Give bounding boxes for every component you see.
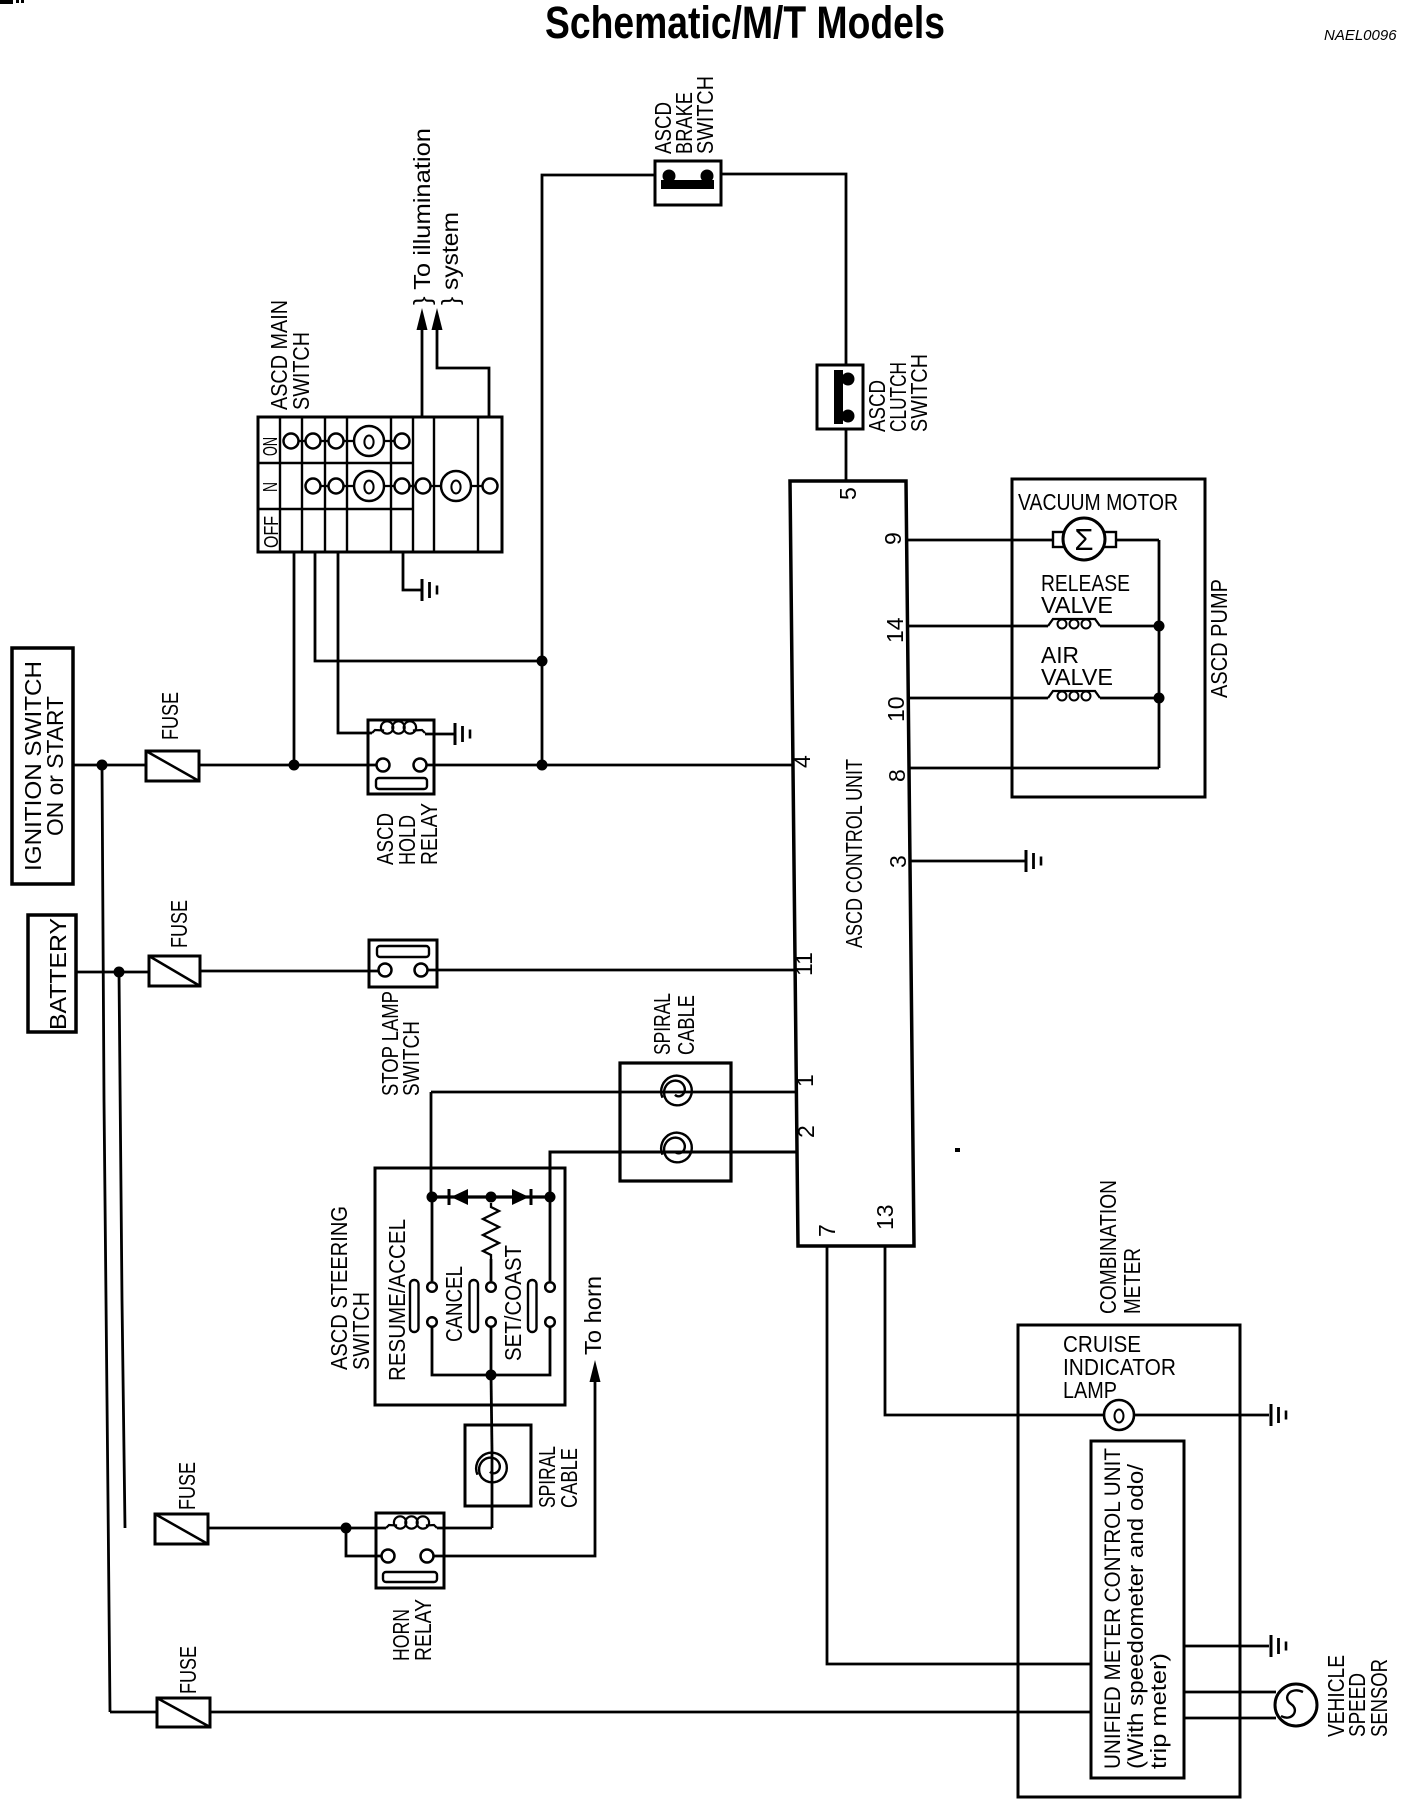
svg-text:3: 3 <box>885 855 911 868</box>
wire battery to fuse2 <box>76 971 149 974</box>
pin 3 label <box>885 855 911 868</box>
svg-text:FUSE: FUSE <box>166 900 192 948</box>
arrow to horn <box>590 1360 601 1382</box>
air valve coil <box>1048 691 1100 701</box>
main switch N row contacts <box>306 479 498 494</box>
release valve coil <box>1048 619 1100 629</box>
svg-text:9: 9 <box>880 532 906 545</box>
pin 11 label <box>791 952 817 976</box>
svg-text:2: 2 <box>793 1125 819 1138</box>
unified meter control unit box <box>1091 1441 1184 1778</box>
wire fuse2 to stop lamp switch <box>200 970 378 973</box>
wire hold relay coil to ground <box>425 733 455 736</box>
ascd steering switch box <box>375 1168 565 1405</box>
wire pump bus vertical <box>1158 540 1161 768</box>
wire fuse4 to meter unit <box>210 1711 1091 1714</box>
node brake feed on pin4 wire <box>537 760 548 771</box>
wire vertical battery feed B <box>119 972 125 1528</box>
ground main switch <box>422 579 437 601</box>
wire meter unit ground <box>1184 1645 1269 1648</box>
main switch N row lamp right <box>441 471 471 501</box>
wire release valve to bus <box>1100 625 1159 628</box>
vehicle speed sensor label <box>1323 1655 1392 1737</box>
svg-text:SET/COAST: SET/COAST <box>500 1245 526 1361</box>
unified meter control unit label <box>1100 1448 1171 1769</box>
combination meter label <box>1095 1180 1145 1314</box>
ink speck <box>955 1148 960 1152</box>
wire pin2 to spiral cable <box>550 1152 796 1197</box>
wire pin10 to air valve <box>908 697 1048 700</box>
cruise indicator lamp <box>1104 1400 1134 1430</box>
wire horn contact to horn <box>434 1382 595 1556</box>
diode D2 right-pointing <box>512 1189 531 1205</box>
pin 4 label <box>789 755 815 768</box>
svg-text:Schematic/M/T Models: Schematic/M/T Models <box>545 0 945 48</box>
svg-text:FUSE: FUSE <box>175 1646 201 1694</box>
svg-text:SWITCH: SWITCH <box>906 354 932 432</box>
horn relay slot <box>383 1572 437 1582</box>
spiral symbol pin2 <box>661 1133 692 1163</box>
main switch N row lamp left <box>354 471 384 501</box>
svg-text:Σ: Σ <box>1074 522 1093 557</box>
arrow to illumination 1 <box>417 308 428 330</box>
wire spiral cable feed down <box>430 1092 433 1197</box>
ascd steering switch label <box>326 1206 374 1370</box>
wire motor to pump bus <box>1116 539 1159 542</box>
svg-text:5: 5 <box>835 487 861 500</box>
node release valve bus <box>1154 621 1165 632</box>
pin 1 label <box>792 1074 818 1087</box>
svg-text:N: N <box>260 482 282 492</box>
node bus left <box>427 1192 438 1203</box>
svg-text:10: 10 <box>883 696 909 722</box>
svg-text:CABLE: CABLE <box>556 1448 582 1508</box>
main switch ON row wire <box>283 440 405 442</box>
steering bus wire <box>432 1195 550 1198</box>
svg-text:SWITCH: SWITCH <box>692 76 718 154</box>
wire pin3 to ground <box>910 860 1026 863</box>
wire brake feed up <box>542 175 655 765</box>
fuse F2 label <box>166 900 192 948</box>
ground control unit pin3 <box>1026 850 1041 872</box>
svg-text:RESUME/ACCEL: RESUME/ACCEL <box>384 1219 410 1381</box>
ascd hold relay slot <box>376 778 427 789</box>
set/coast label <box>500 1245 526 1361</box>
horn relay coil <box>386 1516 437 1528</box>
svg-text:BATTERY: BATTERY <box>45 918 71 1030</box>
wire pin14 to release valve <box>907 625 1048 628</box>
ground meter unit <box>1271 1635 1286 1657</box>
svg-text:CABLE: CABLE <box>673 995 699 1055</box>
cancel switch leg <box>486 1259 496 1375</box>
combination meter box <box>1018 1325 1240 1797</box>
spiral cable upper box <box>620 1063 731 1181</box>
ground hold relay <box>455 723 470 745</box>
ascd brake switch box <box>655 161 721 205</box>
cruise indicator lamp label <box>1063 1331 1176 1403</box>
cancel resistor <box>483 1203 499 1259</box>
svg-text:SWITCH: SWITCH <box>288 332 314 410</box>
svg-text:NAEL0096: NAEL0096 <box>1324 27 1397 44</box>
svg-text:RELAY: RELAY <box>416 803 442 865</box>
pin 5 label <box>835 487 861 500</box>
wire vertical ignition feed A <box>102 765 110 1712</box>
wire switch col1 down to pin4 wire <box>293 552 296 765</box>
svg-text:ASCD PUMP: ASCD PUMP <box>1206 579 1232 698</box>
wire coil to spiral cable <box>437 1527 492 1530</box>
resume/accel slot <box>410 1280 419 1332</box>
wire ignition to fuse <box>73 764 146 767</box>
ascd hold relay box <box>368 720 434 794</box>
svg-text:4: 4 <box>789 755 815 768</box>
stop lamp switch label <box>377 991 424 1096</box>
air valve label <box>1041 642 1113 690</box>
wire pin1 to spiral cable <box>431 1091 795 1094</box>
main switch N row wire <box>305 485 495 487</box>
cancel slot <box>470 1280 479 1332</box>
stop lamp switch slot <box>377 946 429 957</box>
ascd hold relay contacts <box>377 759 427 772</box>
fuse F4 <box>157 1698 210 1727</box>
ascd hold relay label <box>372 803 442 865</box>
main switch position labels <box>260 437 283 548</box>
vehicle speed sensor <box>1275 1684 1317 1726</box>
arrow to illumination 2 <box>432 308 443 330</box>
wire stop lamp switch to pin11 <box>428 969 795 972</box>
svg-text:} To illumination: } To illumination <box>409 128 435 305</box>
spiral symbol horn <box>476 1453 507 1483</box>
wire clutch to pin5 <box>845 429 848 481</box>
svg-text:COMBINATION: COMBINATION <box>1095 1180 1121 1314</box>
set/coast switch leg <box>491 1197 555 1375</box>
svg-text:VALVE: VALVE <box>1041 664 1113 690</box>
to horn label <box>580 1276 606 1355</box>
node horn relay branch <box>341 1523 352 1534</box>
svg-text:ON or START: ON or START <box>42 696 68 836</box>
ground cruise lamp <box>1271 1404 1286 1426</box>
title <box>545 0 945 48</box>
pin 9 label <box>880 532 906 545</box>
svg-text:8: 8 <box>884 769 910 782</box>
svg-text:FUSE: FUSE <box>174 1462 200 1510</box>
horn relay label <box>388 1599 436 1661</box>
svg-text:SPIRAL: SPIRAL <box>649 993 675 1055</box>
svg-text:7: 7 <box>814 1224 840 1237</box>
node steering common <box>486 1370 497 1381</box>
wire pin9 to vacuum motor <box>906 539 1053 542</box>
fuse F1 label <box>157 692 183 740</box>
svg-text:VACUUM MOTOR: VACUUM MOTOR <box>1018 489 1178 515</box>
wire brake to clutch <box>721 174 846 365</box>
release valve label <box>1041 570 1130 618</box>
stop lamp switch contacts <box>379 964 428 977</box>
svg-text:(With speedometer and odo/: (With speedometer and odo/ <box>1123 1463 1148 1769</box>
svg-text:LAMP: LAMP <box>1063 1377 1117 1403</box>
vacuum motor terminals <box>1053 532 1116 547</box>
main switch ON row contacts <box>284 434 410 449</box>
doc code NAEL0096 <box>1324 27 1397 44</box>
cancel label <box>441 1266 467 1342</box>
svg-text:FUSE: FUSE <box>157 692 183 740</box>
stop lamp switch box <box>369 940 437 987</box>
ascd pump label <box>1206 579 1232 698</box>
node main switch feed <box>289 760 300 771</box>
wire pin8 to pump bus <box>909 767 1159 770</box>
node ignition tap <box>97 760 108 771</box>
spiral cable lower box <box>465 1425 531 1506</box>
svg-text:RELAY: RELAY <box>410 1599 436 1661</box>
svg-text:1: 1 <box>792 1074 818 1087</box>
ignition switch label <box>20 661 68 871</box>
svg-text:METER: METER <box>1119 1248 1145 1314</box>
ascd main switch grid <box>258 417 502 552</box>
wire fuse3 to horn relay <box>208 1527 386 1530</box>
ascd clutch switch label <box>864 354 932 432</box>
fuse F4 label <box>175 1646 201 1694</box>
ascd clutch switch contacts <box>834 370 855 424</box>
ascd pump box <box>1012 479 1205 797</box>
wire pin7 to meter unit <box>827 1246 1091 1664</box>
node air valve bus <box>1154 693 1165 704</box>
pin 13 label <box>872 1204 898 1230</box>
horn relay box <box>376 1513 444 1588</box>
page edge mark <box>0 0 24 4</box>
wire pin13 to cruise lamp <box>885 1246 1269 1415</box>
svg-text:SWITCH: SWITCH <box>398 1021 424 1096</box>
diode D1 left-pointing <box>449 1189 468 1205</box>
spiral symbol pin1 <box>661 1076 692 1106</box>
vacuum motor label <box>1018 489 1178 515</box>
wire illumination arrow 2 <box>437 322 489 417</box>
svg-text:ASCD CONTROL UNIT: ASCD CONTROL UNIT <box>841 759 867 948</box>
svg-text:VALVE: VALVE <box>1041 592 1113 618</box>
svg-text:} system: } system <box>437 212 463 305</box>
set/coast slot <box>528 1280 537 1332</box>
horn relay contacts <box>382 1550 434 1563</box>
ascd control unit label <box>841 759 867 948</box>
ascd hold relay coil <box>372 721 425 733</box>
svg-text:CANCEL: CANCEL <box>441 1266 467 1342</box>
ascd brake switch contacts <box>661 170 714 190</box>
svg-text:14: 14 <box>882 617 908 643</box>
node col2 junction <box>537 656 548 667</box>
pin 10 label <box>883 696 909 722</box>
pin 2 label <box>793 1125 819 1138</box>
resume/accel label <box>384 1219 410 1381</box>
svg-text:UNIFIED METER CONTROL UNIT: UNIFIED METER CONTROL UNIT <box>1100 1448 1125 1769</box>
svg-text:13: 13 <box>872 1204 898 1230</box>
wire meter to speed sensor upper <box>1184 1691 1276 1694</box>
wire illumination arrow 1 <box>421 322 424 417</box>
ascd brake switch label <box>650 76 718 154</box>
wire switch col3 to hold relay coil <box>338 552 372 733</box>
svg-text:To horn: To horn <box>580 1276 606 1355</box>
pin 14 label <box>882 617 908 643</box>
wire relay to pin4 <box>426 764 793 767</box>
vacuum motor symbol <box>1063 518 1105 560</box>
battery label <box>45 918 71 1030</box>
wire air valve to bus <box>1100 697 1159 700</box>
fuse F3 <box>155 1514 208 1544</box>
node battery tap <box>114 967 125 978</box>
svg-text:SWITCH: SWITCH <box>348 1292 374 1370</box>
fuse F2 <box>149 956 200 986</box>
ignition switch box <box>12 648 73 884</box>
node bus mid <box>486 1192 497 1203</box>
main switch ON row lamp <box>354 426 384 456</box>
battery box <box>28 915 76 1032</box>
wire branch to horn contact <box>346 1528 381 1556</box>
ascd main switch label <box>266 300 314 410</box>
wire vertical A to fuse4 <box>110 1711 157 1714</box>
svg-text:trip meter): trip meter) <box>1146 1653 1171 1769</box>
spiral cable lower label <box>534 1446 582 1508</box>
ascd clutch switch box <box>817 365 863 429</box>
resume/accel switch leg <box>427 1197 491 1375</box>
svg-text:OFF: OFF <box>261 516 283 548</box>
wire steering common to spiral <box>491 1375 492 1528</box>
wire fuse1 to hold relay <box>199 764 377 767</box>
wire switch col4 to ground <box>403 552 421 590</box>
to illumination system label <box>409 128 463 305</box>
pin 8 label <box>884 769 910 782</box>
svg-text:11: 11 <box>791 952 817 976</box>
wire switch col2 to junction <box>315 552 542 661</box>
svg-text:ON: ON <box>260 437 282 456</box>
fuse F1 <box>146 751 199 781</box>
pin 7 label <box>814 1224 840 1237</box>
node bus right <box>545 1192 556 1203</box>
wire meter to speed sensor lower <box>1184 1717 1276 1720</box>
spiral cable upper label <box>649 993 699 1055</box>
svg-text:SENSOR: SENSOR <box>1366 1659 1392 1737</box>
ascd control unit box <box>790 481 914 1246</box>
fuse F3 label <box>174 1462 200 1510</box>
